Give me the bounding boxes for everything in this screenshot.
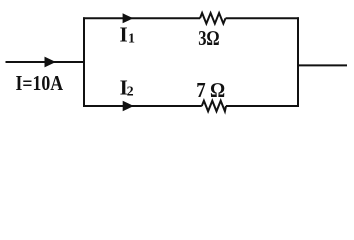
svg-text:7 Ω: 7 Ω [196, 78, 225, 102]
wire: right vertical bus [297, 17, 299, 107]
svg-text:2: 2 [127, 84, 134, 99]
wire: top branch left segment [83, 17, 200, 19]
resistor R2 zigzag [202, 101, 226, 112]
arrowhead: branch current I2 [123, 101, 134, 112]
svg-text:3Ω: 3Ω [198, 26, 219, 50]
resistor R1 zigzag [200, 13, 226, 24]
arrowhead: input current direction [45, 57, 56, 68]
svg-text:I=10A: I=10A [16, 71, 64, 95]
wire: bottom branch right segment [226, 105, 299, 107]
wire: input lead [6, 61, 85, 63]
svg-text:I: I [120, 22, 128, 46]
wire: output lead [298, 64, 347, 66]
wire: bottom branch left segment [83, 105, 202, 107]
wire: top branch right segment [226, 17, 300, 19]
svg-text:1: 1 [128, 32, 135, 47]
wire: left vertical bus [83, 17, 85, 107]
arrowhead: branch current I1 [123, 13, 134, 23]
